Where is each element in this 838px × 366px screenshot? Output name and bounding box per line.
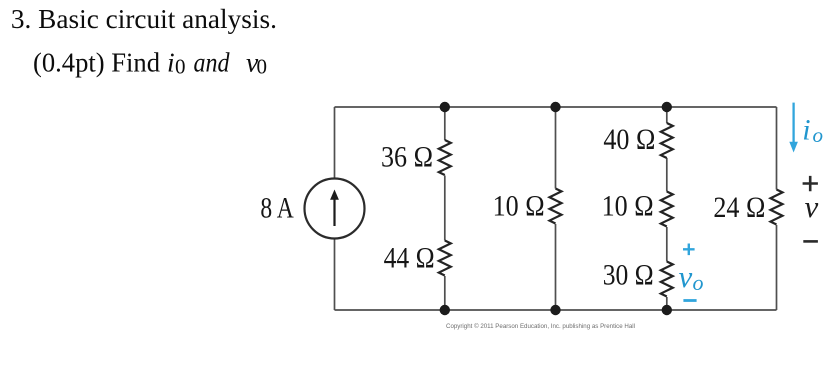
svg-text:8 A: 8 A bbox=[260, 192, 294, 224]
svg-text:i: i bbox=[802, 114, 810, 147]
svg-text:i: i bbox=[167, 47, 175, 78]
svg-text:0: 0 bbox=[175, 55, 186, 79]
svg-text:and: and bbox=[194, 47, 230, 78]
svg-text:10 Ω: 10 Ω bbox=[493, 190, 545, 222]
svg-text:v: v bbox=[805, 189, 819, 224]
svg-text:Copyright © 2011 Pearson Educa: Copyright © 2011 Pearson Education, Inc.… bbox=[446, 322, 635, 330]
svg-text:0: 0 bbox=[257, 55, 268, 79]
svg-text:24 Ω: 24 Ω bbox=[713, 192, 765, 224]
svg-text:o: o bbox=[693, 270, 704, 295]
svg-text:10 Ω: 10 Ω bbox=[602, 191, 654, 223]
svg-text:44 Ω: 44 Ω bbox=[384, 242, 435, 274]
svg-text:30 Ω: 30 Ω bbox=[603, 259, 654, 291]
svg-text:40 Ω: 40 Ω bbox=[603, 124, 655, 156]
svg-text:(0.4pt) Find: (0.4pt) Find bbox=[33, 47, 160, 78]
svg-text:o: o bbox=[813, 123, 824, 147]
svg-text:3. Basic circuit analysis.: 3. Basic circuit analysis. bbox=[11, 3, 277, 34]
svg-text:36 Ω: 36 Ω bbox=[381, 141, 433, 173]
svg-text:v: v bbox=[679, 259, 693, 294]
